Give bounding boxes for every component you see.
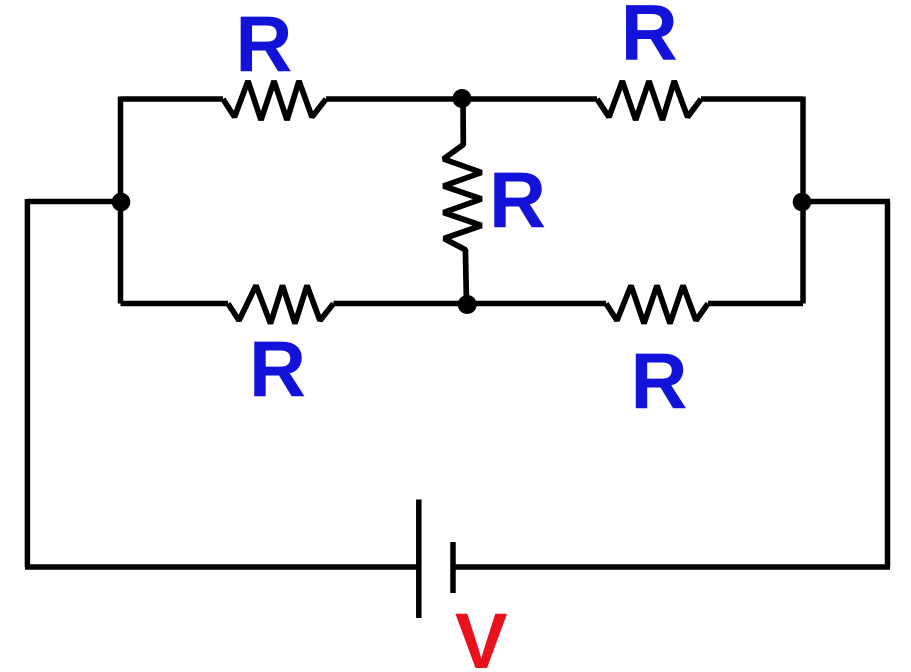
wire: outer left vertical [25, 199, 31, 567]
wire: stub from right node to outer loop [802, 199, 890, 205]
svg-text:V: V [455, 596, 508, 672]
node C (left junction) [112, 193, 131, 212]
svg-text:R: R [489, 155, 546, 244]
resistor R2 (top-right) [597, 81, 701, 120]
node D (right junction) [793, 193, 812, 212]
resistor R3 (middle vertical, with leads) [444, 99, 482, 304]
wire: outer bottom left segment to battery [25, 564, 419, 570]
svg-text:R: R [621, 0, 678, 77]
wire: stub from left node to outer loop [27, 199, 121, 205]
wire: bottom rail left segment [121, 301, 229, 307]
wire: top rail middle segment [326, 96, 597, 102]
resistor R4 (bottom-left) [228, 286, 334, 324]
battery V short plate (negative) [450, 542, 456, 593]
wire: outer bottom right segment from battery [453, 564, 890, 570]
svg-text:R: R [235, 0, 292, 88]
resistor R5 (bottom-right) [606, 286, 708, 324]
wire: outer right vertical [885, 202, 891, 568]
battery V long plate (positive) [416, 500, 422, 619]
wire: bottom rail middle segment [334, 301, 607, 307]
node A (top centre junction) [453, 89, 472, 108]
wire: bottom rail right segment [708, 301, 803, 307]
svg-text:R: R [631, 336, 688, 425]
wire: left inner vertical [118, 97, 124, 304]
node B (bottom centre junction) [458, 295, 477, 314]
svg-text:R: R [249, 324, 306, 413]
wire: right inner vertical [800, 97, 806, 304]
wire: top rail right segment [701, 96, 803, 102]
resistor R1 (top-left) [223, 81, 326, 120]
wire: top rail left segment [121, 96, 224, 102]
